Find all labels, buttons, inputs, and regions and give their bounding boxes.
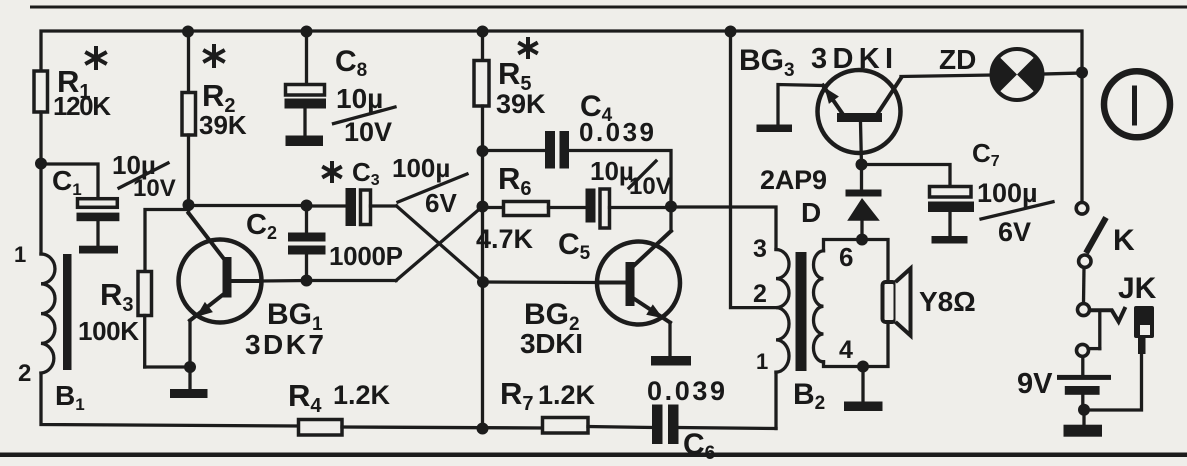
transformer B1 core: [63, 254, 72, 370]
svg-text:1000P: 1000P: [329, 241, 403, 271]
wire to C1: [41, 164, 98, 198]
node dot BG2 base: [477, 276, 489, 288]
wire BG3 collector to lamp: [901, 75, 992, 77]
node dot C2 bottom: [301, 275, 313, 287]
transformer B2 primary winding: [776, 250, 789, 373]
resistor R2: [182, 26, 194, 38]
svg-text:3: 3: [753, 235, 767, 263]
wire secondary top to node: [824, 240, 889, 283]
wire diagonal C3 to BG2 base node: [397, 206, 484, 282]
svg-text:10V: 10V: [629, 173, 672, 200]
transformer B1 winding: [41, 254, 55, 373]
svg-text:2: 2: [18, 360, 31, 387]
capacitor C8: [301, 26, 313, 38]
svg-text:1.2K: 1.2K: [538, 380, 596, 410]
wire R3 bottom to emitter junction: [145, 365, 190, 368]
capacitor C5: [586, 189, 596, 223]
svg-text:100K: 100K: [78, 316, 139, 346]
node dot R6 left: [477, 201, 489, 213]
asterisk at C3: [324, 163, 340, 181]
node dot C4 branch: [477, 145, 489, 157]
capacitor C6: [652, 405, 663, 445]
svg-text:1.2K: 1.2K: [333, 380, 391, 410]
transformer B2 secondary winding: [813, 251, 823, 362]
wire lamp to right rail: [1043, 73, 1083, 74]
svg-text:1: 1: [756, 349, 768, 374]
svg-text:10V: 10V: [133, 175, 176, 202]
svg-text:JK: JK: [1118, 272, 1157, 305]
wire left rail below R1: [39, 112, 42, 254]
resistor R3: [138, 272, 152, 316]
wire diagonal BG1 base to R6 node: [396, 207, 483, 281]
resistor R6: [483, 206, 504, 209]
wire collector node to B2 primary pin3: [671, 207, 776, 250]
svg-text:6V: 6V: [425, 188, 457, 218]
svg-text:3DKI: 3DKI: [520, 328, 583, 359]
svg-text:2AP9: 2AP9: [760, 165, 827, 195]
wire top supply rail: [41, 31, 1082, 72]
asterisk at R2: [205, 46, 223, 66]
node dot BG2 collector: [665, 201, 677, 213]
jack JK body: [1134, 306, 1154, 338]
figure number circle: [1104, 71, 1170, 137]
diode D 2AP9: [860, 166, 863, 190]
svg-text:4.7K: 4.7K: [476, 224, 534, 254]
resistor R4: [299, 420, 343, 436]
svg-text:39K: 39K: [199, 110, 247, 140]
svg-text:K: K: [1113, 224, 1135, 257]
wire right rail down to switch: [1080, 73, 1083, 202]
svg-text:120K: 120K: [53, 91, 111, 121]
capacitor C4: [483, 149, 546, 152]
BG3 emitter lead to contact bar: [778, 85, 823, 125]
transistor Q3 BG3: [818, 70, 901, 153]
wire top border frame line: [30, 6, 1187, 9]
svg-text:39K: 39K: [496, 89, 546, 119]
wire secondary bottom to node: [824, 322, 889, 367]
resistor R1: [34, 71, 48, 112]
svg-text:6V: 6V: [998, 217, 1031, 247]
wire R3 top lead: [145, 210, 189, 272]
svg-text:9V: 9V: [1017, 368, 1053, 400]
bottom rail with R4 R7 C6: [477, 423, 489, 435]
wire B2 primary pin1 to bottom rail: [774, 372, 777, 428]
capacitor C7: [862, 165, 951, 187]
svg-text:1: 1: [14, 242, 26, 267]
svg-text:6: 6: [839, 242, 853, 272]
svg-text:2: 2: [753, 280, 767, 308]
svg-text:ZD: ZD: [939, 44, 976, 75]
node dot C2 top: [301, 200, 313, 212]
ground below BG1: [188, 367, 191, 389]
node dot R2 bottom / BG1 collector: [183, 199, 195, 211]
svg-text:10µ: 10µ: [336, 83, 383, 114]
ground below battery: [1082, 410, 1085, 425]
wire BG3 base down: [861, 122, 862, 166]
node dot speaker bottom: [857, 361, 869, 373]
speaker Y: [883, 282, 896, 322]
asterisk at R1: [87, 48, 105, 68]
wire BG2 base: [483, 280, 597, 284]
svg-text:D: D: [801, 197, 821, 228]
svg-text:Y8Ω: Y8Ω: [919, 286, 976, 317]
capacitor C3: [307, 204, 346, 207]
svg-text:0.039: 0.039: [579, 117, 654, 147]
wire BG1 base: [262, 279, 307, 283]
jack JK contacts: [1078, 304, 1090, 316]
capacitor C1: [78, 199, 118, 208]
svg-text:4: 4: [839, 336, 853, 364]
wire B1 bottom to rail: [41, 373, 299, 426]
resistor R5: [477, 26, 489, 38]
wire top rail to B2 primary tap pin2: [725, 26, 737, 38]
wire node to C2/C3: [189, 204, 307, 207]
battery 9V: [1081, 357, 1084, 375]
svg-text:100µ: 100µ: [977, 178, 1038, 208]
resistor R7: [543, 418, 589, 434]
svg-text:10µ: 10µ: [590, 156, 634, 186]
node dot C1 branch: [35, 158, 47, 170]
capacitor C2: [305, 206, 308, 233]
svg-text:100µ: 100µ: [392, 153, 450, 183]
transistor Q1 BG1: [179, 240, 262, 323]
transistor Q2 BG2: [597, 242, 680, 325]
wire bottom border frame line: [0, 453, 1187, 458]
node dot BG1 emitter junction: [184, 361, 196, 373]
transformer B2 core: [796, 252, 807, 371]
ground below B2 secondary: [861, 367, 864, 402]
svg-text:0.039: 0.039: [647, 376, 725, 406]
asterisk at R5: [520, 39, 536, 57]
switch K: [1076, 203, 1088, 215]
lamp ZD: [992, 49, 1043, 100]
svg-text:10V: 10V: [344, 117, 392, 147]
node dot diode bottom: [856, 234, 868, 246]
